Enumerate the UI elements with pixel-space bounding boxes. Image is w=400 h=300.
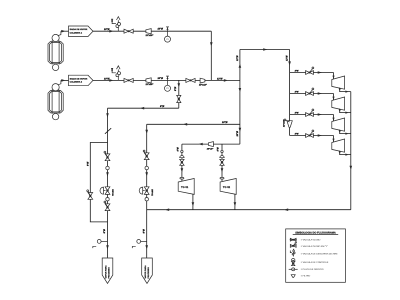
flow arrow station1 <box>106 172 109 176</box>
flow arrow station1 outlet <box>106 245 109 249</box>
flow arrow branch 4 <box>318 134 322 137</box>
svg-text:= VALVULA GLOBO EM "Y": = VALVULA GLOBO EM "Y" <box>301 245 328 248</box>
svg-text:10"Ø: 10"Ø <box>222 121 228 124</box>
wire TG01 exhaust <box>192 194 194 209</box>
svg-text:= PLACA DE ORIFICIO: = PLACA DE ORIFICIO <box>301 268 324 271</box>
flange station1 a <box>106 166 109 169</box>
turbine T1 <box>332 76 345 89</box>
svg-text:= VALVULA DE CONTROLE: = VALVULA DE CONTROLE <box>301 261 329 264</box>
svg-text:4"Ø: 4"Ø <box>217 147 220 152</box>
svg-text:PROCESSO: PROCESSO <box>107 267 110 279</box>
wire TG02 exhaust <box>234 194 236 209</box>
Y-globe valve station1 lower <box>105 204 110 211</box>
svg-text:= VALVULA DE DESCARGA DE AIRE: = VALVULA DE DESCARGA DE AIRE <box>301 252 338 255</box>
svg-text:TO-102: TO-102 <box>151 188 154 196</box>
svg-text:10"x12": 10"x12" <box>199 84 207 87</box>
flow arrow line1 <box>109 30 113 33</box>
flange pair TG01 inlet <box>180 177 184 179</box>
flange pair TG02 inlet <box>220 177 224 179</box>
turbine inlet drop 4 <box>333 136 335 143</box>
flow arrow line2 <box>109 79 113 82</box>
globe valve V2 <box>124 78 133 82</box>
expander 10"x12" line2 <box>200 78 205 83</box>
Y-globe valve branch 3 <box>306 113 314 117</box>
control valve CV-TG02 <box>220 159 224 165</box>
spec break on station1 <box>105 128 111 134</box>
wire station2 vertical <box>146 124 148 258</box>
svg-text:= FILTRO: = FILTRO <box>301 275 311 278</box>
boiler B2 (caldera 2) <box>48 91 63 113</box>
flow arrow station2 outlet <box>145 245 148 249</box>
wire letdown line <box>147 123 240 125</box>
wire boiler1 drop to header junction <box>210 31 212 80</box>
flow arrow branch 3 <box>318 113 322 116</box>
svg-text:8"Ø: 8"Ø <box>103 229 106 233</box>
svg-text:10"Ø: 10"Ø <box>158 28 164 31</box>
globe valve V1 <box>124 29 133 33</box>
flag SAIDA DE VAPOR CALDEIRA 2 <box>69 75 94 86</box>
wire steam line 1 <box>93 30 211 32</box>
wire steam line 2 <box>93 79 240 81</box>
wire turbine branch 2 <box>290 93 334 95</box>
control valve CV-1 <box>105 187 110 195</box>
wire bypass station1 <box>90 143 107 222</box>
wire boiler1 to flag1 with arrow <box>61 30 69 32</box>
control valve CV-TG01 <box>180 159 184 165</box>
wire TG feed line <box>182 143 240 145</box>
flag VAPOR PARA PROCESO 2 <box>142 258 153 284</box>
wire station1 vertical <box>107 108 109 258</box>
svg-text:12"Ø: 12"Ø <box>236 55 239 61</box>
svg-text:10"Ø: 10"Ø <box>236 131 239 137</box>
svg-text:PROCESSO: PROCESSO <box>147 267 150 279</box>
flag VAPOR PARA PROCESO 1 <box>102 258 113 284</box>
svg-text:4"Ø: 4"Ø <box>177 147 180 152</box>
turbine T3 <box>332 118 345 131</box>
flange TG02 <box>221 150 223 152</box>
Y-globe valve bypass <box>88 193 93 200</box>
svg-text:4"Ø: 4"Ø <box>294 132 299 135</box>
turbine T4 exhaust <box>340 151 351 155</box>
flow arrow into TG01 <box>181 168 184 172</box>
wire boiler2 to flag2 with arrow <box>61 79 69 81</box>
wire turbine branch 1 <box>290 72 334 74</box>
flange station2 b <box>145 198 148 201</box>
svg-text:10"Ø: 10"Ø <box>104 77 110 80</box>
flow arrow header down <box>288 61 291 65</box>
svg-text:8"Ø: 8"Ø <box>143 229 146 233</box>
svg-text:12"Ø: 12"Ø <box>285 55 288 61</box>
svg-text:8"Ø: 8"Ø <box>86 162 89 166</box>
flange station2 a <box>145 166 148 169</box>
wire exhaust header horizontal <box>147 209 351 211</box>
svg-text:TG 02: TG 02 <box>223 186 231 189</box>
reducer 12"x10" line2 <box>146 78 151 83</box>
svg-text:10"Ø: 10"Ø <box>104 28 110 31</box>
wire TG02 drop <box>221 144 223 181</box>
svg-text:SAIDA DE VAPOR: SAIDA DE VAPOR <box>70 77 88 80</box>
svg-text:4"Ø: 4"Ø <box>294 111 299 114</box>
wire main riser vertical <box>239 50 241 145</box>
legend valvula descarga de aire <box>293 251 295 256</box>
svg-text:= VALVULA GLOBO: = VALVULA GLOBO <box>301 239 321 242</box>
svg-text:VAPOR PARA: VAPOR PARA <box>105 265 108 279</box>
instrument gauge station2 <box>141 241 147 243</box>
svg-text:12"Ø: 12"Ø <box>217 77 223 80</box>
svg-text:TG 01: TG 01 <box>181 186 189 189</box>
svg-text:VAPOR PARA: VAPOR PARA <box>144 265 147 279</box>
globe valve V4 on branch <box>177 95 181 102</box>
air discharge valve AV1 <box>117 20 119 31</box>
turbine T2 exhaust <box>340 109 351 113</box>
svg-text:SIMBOLOGIA DO FLUXOGRAMA: SIMBOLOGIA DO FLUXOGRAMA <box>295 231 336 234</box>
wire turbine branch 3 <box>290 114 334 116</box>
legend valvula de control <box>292 261 295 265</box>
wire top header <box>240 49 290 51</box>
turbo-generator TG 02 <box>220 179 236 195</box>
pressure tap PI-1 <box>167 27 169 31</box>
Y-globe valve station2 upper <box>144 153 149 160</box>
svg-text:TO-101: TO-101 <box>111 189 114 196</box>
wire station1 feed line <box>108 107 179 109</box>
flow arrow merged line <box>224 79 228 82</box>
wire exhaust collector vertical <box>350 92 352 210</box>
flow arrow station2 <box>145 172 148 176</box>
boiler B1 (caldera 1) <box>48 41 63 63</box>
expander 10"x8" TG feed <box>208 142 213 147</box>
legend valvula globo en Y <box>290 245 296 248</box>
pressure tap PI-2 <box>167 76 169 80</box>
Y-globe valve station1 upper <box>105 154 110 161</box>
reducer 12"x10" line1 <box>146 29 151 34</box>
svg-text:4"Ø: 4"Ø <box>294 69 299 72</box>
Y-globe valve branch 1 <box>306 71 314 75</box>
svg-text:CALDEIRA 1: CALDEIRA 1 <box>70 31 83 34</box>
boiler B2 steam riser <box>58 80 61 84</box>
flow arrow branch 2 <box>318 92 322 95</box>
svg-text:12"x10": 12"x10" <box>146 34 154 37</box>
flag SAIDA DE VAPOR CALDEIRA 1 <box>69 26 94 37</box>
legend filtro <box>291 275 295 278</box>
flow arrow riser up <box>239 64 242 68</box>
legend placa de orificio <box>289 268 298 270</box>
control valve CV-2 <box>144 187 149 195</box>
globe valve V3 line2 <box>186 78 195 82</box>
wire turbine header vertical <box>289 50 291 136</box>
turbine inlet drop 2 <box>333 94 335 101</box>
Y-globe valve branch 4 <box>306 134 314 138</box>
flow arrow into TG02 <box>221 168 224 172</box>
air discharge valve AV2 <box>117 69 119 80</box>
svg-text:8"Ø: 8"Ø <box>174 87 177 91</box>
svg-text:SAIDA DE VAPOR: SAIDA DE VAPOR <box>70 28 88 31</box>
legend box <box>286 229 346 282</box>
turbine T3 exhaust <box>340 130 351 134</box>
instrument gauge station1 <box>101 241 108 243</box>
wire line2 branch down <box>178 80 180 108</box>
strainer F1 on header <box>287 121 292 128</box>
Y-globe valve branch 2 <box>306 92 314 96</box>
svg-text:4"Ø: 4"Ø <box>294 90 299 93</box>
svg-text:CALDEIRA 2: CALDEIRA 2 <box>70 81 83 84</box>
turbine T1 exhaust <box>340 88 351 92</box>
flange station1 b <box>106 198 109 201</box>
svg-text:10"Ø: 10"Ø <box>158 77 164 80</box>
turbine T4 <box>332 139 345 152</box>
wire turbine branch 4 <box>290 135 334 137</box>
svg-text:12"x10": 12"x10" <box>282 119 285 127</box>
turbine inlet drop 3 <box>333 115 335 122</box>
svg-text:10"x8": 10"x8" <box>207 147 213 150</box>
flow arrow branch 1 <box>318 71 322 74</box>
flange TG01 <box>181 150 183 152</box>
svg-text:8"Ø: 8"Ø <box>160 105 164 108</box>
flow arrow riser down 2 <box>239 128 242 132</box>
turbo-generator TG 01 <box>178 179 194 195</box>
legend valvula globo <box>290 238 296 241</box>
boiler B1 steam riser <box>58 31 61 35</box>
flow arrow riser down <box>239 88 242 92</box>
turbine T2 <box>332 97 345 110</box>
wire TG01 drop <box>181 144 183 181</box>
svg-text:12"x10": 12"x10" <box>146 83 154 86</box>
turbine inlet drop 1 <box>333 73 335 80</box>
